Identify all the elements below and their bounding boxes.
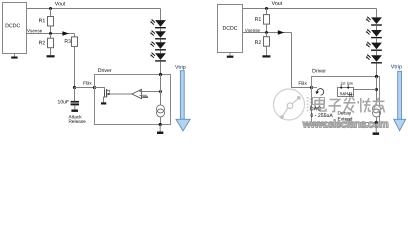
wire LED cathode to driver box right — [376, 64, 378, 77]
watermark dotted column — [307, 97, 311, 111]
arrow Vsense direction — [62, 31, 69, 35]
Vtrip arrow left — [176, 71, 190, 131]
current source I1 — [157, 105, 165, 113]
svg-text:Decay: Decay — [338, 110, 352, 116]
svg-text:Vsense: Vsense — [27, 28, 43, 33]
wire SH box to sense line — [354, 89, 377, 91]
wire R1 bottom stub — [50, 26, 52, 34]
wire current source to box bottom — [160, 117, 162, 125]
resistor R3 — [72, 37, 78, 47]
LED D7 — [366, 38, 382, 51]
wire R2 top stub right — [266, 33, 268, 37]
wire Vsense net — [27, 33, 75, 35]
ground under right DCDC — [229, 52, 231, 56]
svg-text:DCDC: DCDC — [5, 23, 20, 29]
svg-text:Vout: Vout — [272, 1, 283, 7]
integrator loop icon — [312, 88, 324, 96]
wire R2 bottom stub — [50, 48, 52, 56]
LED D4 — [150, 51, 166, 62]
wire comparator + input — [142, 91, 161, 93]
watermark logo circle — [274, 89, 305, 120]
svg-text:Vtrip: Vtrip — [391, 64, 402, 70]
node bottom junction dot right — [375, 121, 378, 124]
resistor R2 right — [264, 37, 270, 47]
op-amp comparator U3 (points left) — [132, 89, 142, 98]
comparator + sign — [139, 90, 141, 92]
wire FB node to driver pin — [75, 87, 95, 89]
svg-text:R2: R2 — [39, 40, 46, 46]
resistor R1 — [48, 17, 54, 27]
LED D6 — [366, 26, 382, 39]
svg-text:Vsense: Vsense — [245, 28, 261, 33]
ground under capacitor — [71, 110, 78, 112]
svg-text:DAC: DAC — [310, 106, 321, 112]
svg-text:Vout: Vout — [55, 1, 66, 7]
LED D5 — [366, 16, 382, 25]
svg-text:R1: R1 — [39, 18, 46, 24]
node LED/box junction dot — [159, 73, 162, 76]
wire sense vertical inside box right — [376, 77, 378, 105]
svg-text:R3: R3 — [64, 39, 71, 45]
ground under Q1 source — [101, 102, 106, 104]
watermark hanzi 3 fa — [344, 98, 356, 113]
Vtrip arrow right — [394, 71, 406, 130]
wire capacitor bottom stub — [74, 105, 76, 109]
LED D1 — [150, 19, 166, 29]
svg-text:1st low: 1st low — [340, 81, 354, 86]
watermark hanzi 1 dian — [315, 98, 326, 111]
wire R1 top stub right — [266, 9, 268, 15]
wire ground stub right — [375, 123, 377, 133]
node driver FB pin dot — [93, 86, 96, 89]
resistor R1 right — [264, 15, 270, 25]
node FB junction dot — [73, 86, 76, 89]
wire Vsense corner down to R3 — [74, 34, 76, 37]
LED string wire from Vout right — [376, 9, 378, 18]
LED D2 — [150, 28, 166, 39]
wire sense line vertical — [160, 75, 162, 105]
svg-text:R1: R1 — [255, 17, 262, 23]
svg-text:Extend: Extend — [338, 116, 353, 122]
capacitor C1 10uF plates — [71, 101, 79, 103]
wire R2 bottom stub right — [266, 46, 268, 55]
node bottom junction dot — [159, 123, 162, 126]
node junction sense/SH wire right — [375, 88, 378, 91]
watermark hanzi 2 zi — [329, 100, 342, 112]
svg-text:DCDC: DCDC — [222, 26, 237, 32]
ground under R2 — [47, 55, 55, 57]
node junction Vsense/R1/R2 — [49, 32, 52, 35]
DAC block — [313, 98, 325, 105]
LED string wire from Vout — [160, 9, 162, 21]
node LED/box junction dot right — [375, 75, 378, 78]
wire LED cathode to driver box — [160, 62, 162, 75]
DCDC converter block U1 — [3, 3, 27, 54]
wire capacitor top stub — [74, 88, 76, 102]
svg-text:R2: R2 — [255, 40, 262, 46]
reference level bar at - input — [142, 96, 148, 98]
wire comparator output to Q1 — [110, 93, 132, 95]
resistor R2 — [48, 38, 54, 48]
node driver FB pin dot right — [310, 86, 313, 89]
svg-text:FBx: FBx — [298, 81, 307, 87]
ground under DCDC — [13, 54, 15, 57]
LED D8 — [366, 51, 382, 64]
svg-text:Release: Release — [69, 119, 87, 124]
arrow Vsense direction right — [278, 30, 285, 34]
node junction Vout/R1 right — [265, 7, 268, 10]
driver block U2 — [95, 75, 171, 125]
wire R3 bottom to FB node — [74, 46, 76, 87]
ground under driver — [157, 132, 163, 135]
node junction Vsense right — [265, 31, 268, 34]
wire Vsense net right — [243, 32, 292, 34]
wire FB feed: corner down and into driver — [292, 33, 312, 88]
svg-text:Vtrip: Vtrip — [175, 65, 186, 71]
wire Vout net — [27, 8, 161, 10]
ground under R2 right — [262, 55, 270, 57]
wire R1 top stub — [50, 9, 52, 17]
sample-hold block — [338, 88, 354, 97]
svg-text:0 - 255uA: 0 - 255uA — [310, 113, 333, 119]
trigger arrows into SH — [341, 85, 348, 88]
watermark hanzi 5 you — [373, 98, 385, 113]
node junction Vout/R1 — [49, 7, 52, 10]
comparator - sign — [139, 94, 141, 96]
transistor Q1 — [104, 89, 110, 102]
wire comparator - input stub — [142, 94, 148, 96]
watermark hanzi 4 shao — [358, 98, 371, 113]
svg-text:Driver: Driver — [98, 68, 112, 74]
wire R1 bottom stub right — [266, 24, 268, 32]
svg-text:S&H: S&H — [339, 91, 348, 96]
DCDC converter block U4 — [218, 5, 243, 53]
wire R2 top stub — [50, 34, 52, 39]
wire Vout net right — [243, 8, 377, 10]
transistor Q1 gate wire from FB pin — [95, 88, 105, 90]
ground under driver right — [373, 132, 380, 135]
node junction + input / sense line — [159, 90, 162, 93]
svg-text:10uF: 10uF — [58, 99, 69, 105]
wire current source to box bottom right — [376, 117, 378, 123]
current source I2 — [373, 105, 381, 113]
driver block U5 — [312, 77, 380, 123]
svg-text:FBx: FBx — [83, 81, 92, 87]
svg-text:Driver: Driver — [312, 68, 326, 74]
LED D3 — [150, 40, 166, 51]
wire ground stub — [159, 125, 161, 132]
